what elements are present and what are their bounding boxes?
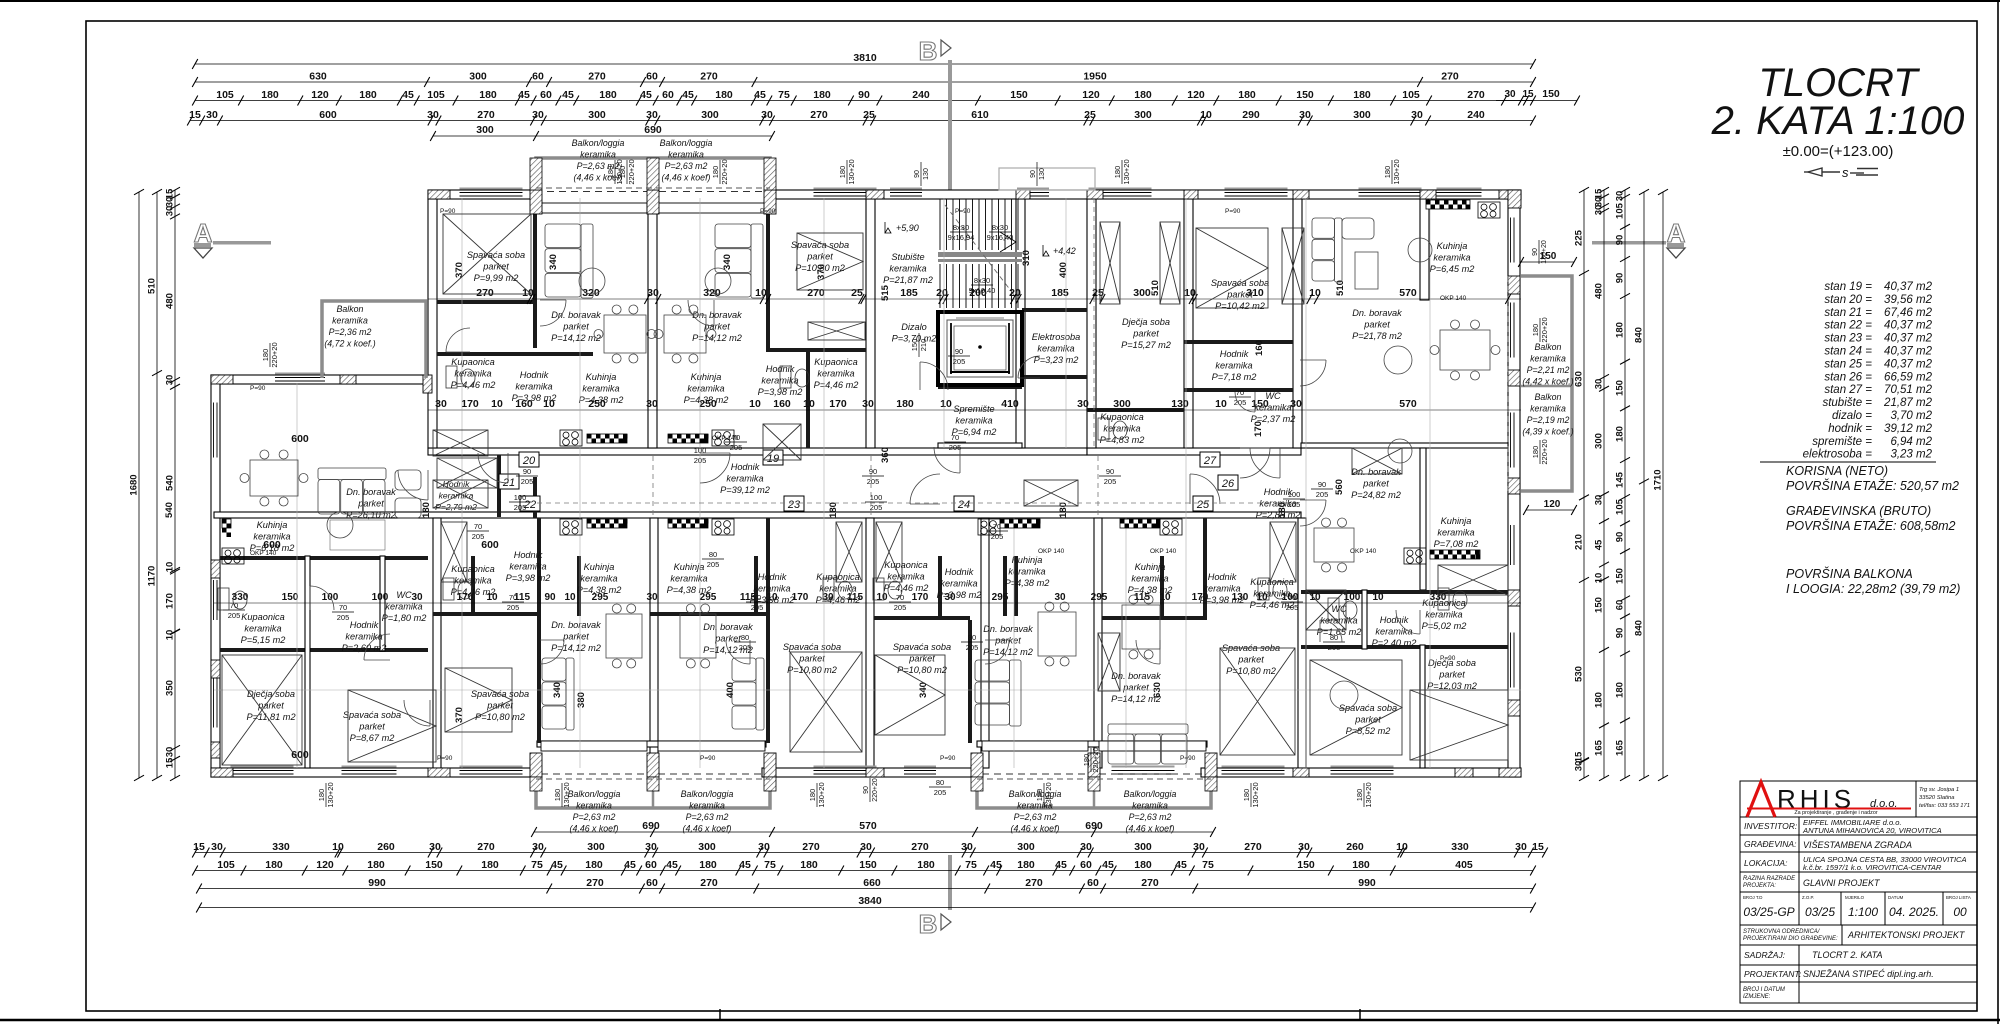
furniture sofa sofa 19 — [715, 224, 763, 298]
svg-text:220+20: 220+20 — [1540, 439, 1549, 464]
balcony bottom pair 2 — [977, 777, 1211, 808]
level mark +5,90 — [885, 222, 919, 233]
svg-text:170: 170 — [1253, 421, 1264, 437]
svg-text:POVRŠINA ETAŽE: 608,58m2: POVRŠINA ETAŽE: 608,58m2 — [1786, 518, 1956, 533]
window top t4 — [814, 188, 877, 199]
label window label right r2 — [1531, 317, 1549, 342]
room label Hodnik 20 — [512, 370, 557, 403]
label window label bl1 — [863, 778, 879, 802]
svg-text:180: 180 — [1353, 89, 1371, 101]
svg-text:stubište =: stubište = — [1822, 397, 1872, 409]
svg-text:45: 45 — [666, 859, 678, 871]
wall pier t6 — [1508, 190, 1521, 208]
room label WC 26 — [1317, 604, 1362, 637]
svg-text:3,70 m2: 3,70 m2 — [1890, 410, 1932, 422]
svg-text:Dječja soba: Dječja soba — [1122, 317, 1170, 327]
svg-text:690: 690 — [644, 124, 662, 136]
svg-text:40,37 m2: 40,37 m2 — [1884, 281, 1933, 293]
svg-text:270: 270 — [802, 841, 820, 853]
svg-text:Hodnik: Hodnik — [514, 550, 543, 560]
svg-text:10: 10 — [876, 592, 888, 603]
wall pier s1 — [211, 560, 220, 578]
svg-text:180: 180 — [828, 502, 839, 518]
svg-text:Dizalo: Dizalo — [901, 322, 927, 332]
door arc left block b — [364, 634, 390, 660]
furniture circle 27 — [1384, 346, 1412, 374]
label door label90 f6 — [1099, 467, 1121, 486]
door arc spremiste door — [934, 447, 960, 473]
svg-text:Hodnik: Hodnik — [731, 462, 760, 472]
svg-text:180: 180 — [1113, 166, 1122, 179]
wall left exterior — [211, 375, 220, 777]
svg-text:45: 45 — [624, 859, 636, 871]
svg-text:30: 30 — [647, 287, 659, 299]
svg-text:90: 90 — [544, 592, 556, 603]
svg-text:180: 180 — [421, 502, 432, 518]
svg-text:60: 60 — [540, 89, 552, 101]
wall corridor top wall — [428, 448, 1087, 455]
svg-text:Spavaća soba: Spavaća soba — [343, 710, 401, 720]
dimension chain left col inner — [165, 187, 181, 781]
window top t8 — [1225, 188, 1288, 199]
svg-text:23: 23 — [787, 499, 801, 511]
svg-text:180: 180 — [1615, 426, 1626, 442]
svg-text:10: 10 — [749, 398, 761, 410]
svg-text:P=90: P=90 — [1180, 755, 1196, 762]
wall apt19 partition — [766, 199, 770, 348]
svg-text:170: 170 — [912, 592, 929, 603]
room label Hodnik 21c — [435, 479, 477, 512]
svg-text:180: 180 — [265, 859, 283, 871]
svg-text:P=39,12 m2: P=39,12 m2 — [720, 485, 770, 495]
svg-text:45: 45 — [562, 89, 574, 101]
svg-text:60: 60 — [532, 71, 544, 83]
svg-text:Dn. boravak: Dn. boravak — [703, 622, 753, 632]
svg-text:Dn. boravak: Dn. boravak — [551, 620, 601, 630]
svg-text:30: 30 — [646, 109, 658, 121]
svg-text:60: 60 — [646, 71, 658, 83]
svg-text:parket: parket — [703, 322, 730, 332]
furniture bed/wardrobe ward 26c — [1306, 590, 1346, 630]
furniture armchair 21b — [395, 498, 421, 518]
svg-text:1:100: 1:100 — [1848, 905, 1878, 919]
svg-text:P=3,98 m2: P=3,98 m2 — [937, 590, 982, 600]
wall pier p4 — [647, 190, 659, 214]
room label Spavaca soba 27 — [1211, 278, 1269, 311]
svg-text:keramika: keramika — [1131, 574, 1168, 584]
svg-text:+5,90: +5,90 — [896, 223, 919, 233]
svg-text:OKP 140: OKP 140 — [1150, 548, 1177, 555]
wall kitchen24 wall — [1003, 556, 1007, 616]
balcony bottom dash 2 — [977, 778, 1211, 780]
title block table — [1740, 781, 1977, 1003]
svg-text:80: 80 — [1330, 633, 1338, 642]
svg-text:205: 205 — [337, 613, 350, 622]
svg-text:25: 25 — [1084, 109, 1096, 121]
section marker B bottom — [919, 855, 952, 939]
room label Dn boravak 23 — [703, 622, 753, 655]
svg-text:10: 10 — [1594, 573, 1605, 584]
svg-text:TLOCRT 2. KATA: TLOCRT 2. KATA — [1812, 950, 1883, 960]
svg-text:310: 310 — [1021, 250, 1032, 266]
svg-text:205: 205 — [1104, 477, 1117, 486]
window right r5 — [1509, 633, 1516, 688]
dimension chain top overall 3810 — [192, 52, 1536, 69]
svg-text:10: 10 — [1309, 592, 1321, 603]
svg-text:990: 990 — [1358, 877, 1376, 889]
svg-text:30: 30 — [1515, 841, 1527, 853]
wall pier p3 — [530, 190, 542, 214]
svg-text:30: 30 — [1290, 398, 1302, 410]
bathroom fixtures b27b — [1438, 588, 1467, 610]
svg-text:30: 30 — [1054, 592, 1066, 603]
svg-text:150: 150 — [859, 859, 877, 871]
svg-text:180: 180 — [1531, 446, 1540, 459]
title block texts — [1743, 818, 1971, 1000]
svg-text:P=90: P=90 — [940, 755, 956, 762]
svg-text:keramika: keramika — [509, 562, 546, 572]
room label Kupaonica 20 — [451, 357, 496, 390]
balcony bottom pair 1 — [536, 777, 770, 808]
svg-text:P=2,40 m2: P=2,40 m2 — [1372, 638, 1417, 648]
svg-text:75: 75 — [965, 859, 977, 871]
label window label left l2 — [618, 159, 636, 184]
furniture table table 22 — [606, 604, 642, 668]
room label Balkon right 2 — [1522, 392, 1573, 437]
furniture sofa sofa 21 — [318, 468, 386, 514]
furniture bed bed 27a — [1196, 228, 1268, 308]
svg-text:keramika: keramika — [244, 624, 281, 634]
svg-text:Kuhinja: Kuhinja — [1135, 562, 1166, 572]
svg-text:120: 120 — [1082, 89, 1100, 101]
dimension chain right col 1 — [1574, 187, 1590, 781]
svg-text:120: 120 — [1187, 89, 1205, 101]
room label Kuhinja 27 — [1430, 241, 1475, 274]
balcony top dash — [536, 187, 770, 189]
bathroom fixtures b22 — [443, 578, 472, 600]
svg-text:stan 22 =: stan 22 = — [1824, 320, 1872, 332]
svg-text:parket: parket — [798, 654, 825, 664]
svg-text:POVRŠINA ETAŽE: 520,57 m2: POVRŠINA ETAŽE: 520,57 m2 — [1786, 478, 1959, 493]
room label Balkon/loggia top 2 — [660, 138, 713, 183]
svg-text:40,37 m2: 40,37 m2 — [1884, 333, 1933, 345]
room label Hodnik 26 — [1256, 487, 1301, 520]
door arc bath26 — [1320, 620, 1342, 642]
wall pier q10 — [1455, 768, 1473, 777]
svg-text:350: 350 — [165, 680, 176, 696]
svg-text:180: 180 — [481, 859, 499, 871]
wall apt27 wc wall — [1184, 388, 1293, 392]
room label Hodnik 26b — [1372, 615, 1417, 648]
svg-text:8x30: 8x30 — [953, 223, 969, 232]
wall corridor bottom wall — [214, 512, 1301, 518]
svg-text:30: 30 — [1080, 841, 1092, 853]
svg-text:parket: parket — [1363, 320, 1390, 330]
label window label t5 — [914, 162, 930, 186]
window bottom b7 — [904, 766, 936, 777]
room label Hodnik 27 — [1212, 349, 1257, 382]
svg-text:180: 180 — [1594, 692, 1605, 708]
svg-text:RAZINA RAZRADE: RAZINA RAZRADE — [1743, 876, 1796, 882]
dimension chain right col 3 — [1615, 187, 1631, 781]
svg-text:300: 300 — [1594, 433, 1605, 449]
svg-text:Spavaća soba: Spavaća soba — [791, 240, 849, 250]
window bottom b9 — [1112, 766, 1175, 777]
svg-text:150: 150 — [1540, 251, 1557, 262]
furniture bed bed 26b — [1410, 690, 1508, 760]
svg-text:270: 270 — [477, 109, 495, 121]
svg-text:GLAVNI PROJEKT: GLAVNI PROJEKT — [1803, 878, 1881, 888]
svg-text:270: 270 — [477, 841, 495, 853]
furniture bed/wardrobe closet 25 — [1270, 522, 1296, 582]
wall pier q4d — [1205, 753, 1217, 777]
axis witness lines vertical — [297, 198, 1430, 768]
svg-text:130+20: 130+20 — [847, 159, 856, 184]
svg-text:keramika: keramika — [454, 369, 491, 379]
svg-text:P=8,67 m2: P=8,67 m2 — [350, 733, 395, 743]
window top t1 — [460, 188, 523, 199]
svg-text:130+20: 130+20 — [1392, 159, 1401, 184]
kitchen stove s24 — [978, 519, 1000, 535]
svg-text:480: 480 — [165, 293, 176, 309]
wall apt27 hall wall — [1184, 340, 1293, 344]
svg-text:30: 30 — [165, 375, 176, 386]
room label Spavaca soba 22 — [471, 689, 529, 722]
svg-text:3810: 3810 — [853, 52, 877, 64]
label door label80 g4 — [702, 550, 724, 569]
furniture table table 26 — [1314, 518, 1354, 572]
svg-text:600: 600 — [291, 433, 309, 445]
svg-text:180: 180 — [553, 789, 562, 802]
svg-text:keramika: keramika — [515, 382, 552, 392]
svg-text:295: 295 — [592, 592, 609, 603]
svg-text:150: 150 — [1615, 568, 1626, 584]
label stair 8x30 c — [969, 276, 996, 295]
svg-text:MJERILO: MJERILO — [1845, 895, 1865, 900]
svg-text:10: 10 — [1200, 109, 1212, 121]
svg-text:180: 180 — [599, 89, 617, 101]
svg-text:keramika: keramika — [889, 264, 926, 274]
wall apt19 hall vert — [806, 352, 810, 448]
svg-text:205: 205 — [894, 603, 907, 612]
svg-text:45: 45 — [1175, 859, 1187, 871]
svg-text:Dn. boravak: Dn. boravak — [983, 624, 1033, 634]
svg-text:160: 160 — [515, 398, 533, 410]
svg-text:105: 105 — [1615, 202, 1626, 219]
svg-text:180: 180 — [1355, 789, 1364, 802]
svg-text:90: 90 — [1532, 248, 1539, 256]
dimension chain right col 5 — [1653, 189, 1669, 781]
svg-text:90: 90 — [1615, 628, 1626, 639]
wall elektro walls — [1022, 308, 1087, 312]
svg-text:310: 310 — [1246, 287, 1264, 299]
interior dim row mid — [428, 398, 1521, 410]
svg-text:205: 205 — [867, 477, 880, 486]
svg-text:30: 30 — [1299, 109, 1311, 121]
svg-text:205: 205 — [953, 357, 966, 366]
svg-text:105: 105 — [216, 89, 234, 101]
svg-text:70: 70 — [753, 593, 761, 602]
furniture bed/wardrobe closet 23 — [836, 522, 862, 582]
svg-text:keramika: keramika — [668, 150, 704, 160]
elevator dizalo — [938, 312, 1022, 385]
svg-text:keramika: keramika — [1530, 404, 1566, 414]
svg-text:stan 25 =: stan 25 = — [1824, 358, 1872, 370]
svg-text:P=11,81 m2: P=11,81 m2 — [246, 712, 295, 722]
svg-text:130+20: 130+20 — [326, 782, 335, 807]
svg-text:400: 400 — [1058, 262, 1069, 278]
svg-text:180: 180 — [896, 398, 914, 410]
door arc hall26 — [1300, 500, 1326, 526]
room label Djecja soba 27 — [1121, 317, 1171, 350]
svg-text:keramika: keramika — [1037, 344, 1074, 354]
room label Hodnik 21 — [342, 620, 387, 653]
wall mid vert c — [754, 556, 758, 616]
label window label top w2 — [838, 159, 856, 184]
svg-text:GRAĐEVINA:: GRAĐEVINA: — [1744, 839, 1797, 849]
svg-text:Dn. boravak: Dn. boravak — [1111, 671, 1161, 681]
wall divider 22/23 — [650, 518, 658, 768]
svg-text:295: 295 — [1091, 592, 1108, 603]
svg-text:405: 405 — [1455, 859, 1473, 871]
room label Spavaca soba 25 — [1222, 643, 1280, 676]
door arc elektro door — [1018, 356, 1040, 378]
wall pier p5 — [764, 190, 776, 214]
svg-text:530: 530 — [1574, 666, 1585, 682]
door arc room26 — [1396, 610, 1420, 634]
wall apt top partition b — [533, 199, 537, 348]
dimension chain bottom rowA — [531, 820, 775, 837]
furniture table table 24 — [1038, 602, 1076, 666]
svg-text:P=2,60 m2: P=2,60 m2 — [342, 643, 387, 653]
svg-text:30: 30 — [1504, 89, 1516, 100]
room label Djecja soba 26 — [1427, 658, 1477, 691]
left block dims — [263, 433, 499, 761]
svg-text:145: 145 — [1615, 471, 1626, 488]
kitchen counter k22 — [587, 519, 628, 528]
svg-text:205: 205 — [1316, 490, 1329, 499]
svg-text:60: 60 — [1615, 600, 1626, 611]
window bottom b10 — [1222, 766, 1285, 777]
furniture bed/wardrobe ward 25 — [1098, 633, 1120, 691]
svg-text:P=5,15 m2: P=5,15 m2 — [241, 635, 286, 645]
svg-text:90: 90 — [523, 467, 531, 476]
svg-text:GRAĐEVINSKA (BRUTO): GRAĐEVINSKA (BRUTO) — [1786, 504, 1931, 518]
svg-text:P=2,63 m2: P=2,63 m2 — [665, 161, 708, 171]
wall pier p10 — [1293, 190, 1309, 199]
wall bedroom22 divider — [537, 518, 541, 743]
wall apt21 hall wall a — [497, 455, 501, 517]
label door label100 h4 — [689, 446, 711, 465]
wall bottom exterior right — [1201, 768, 1521, 777]
svg-text:P=4,38 m2: P=4,38 m2 — [1005, 578, 1050, 588]
label window label top w4 — [1383, 159, 1401, 184]
room label Balkon/loggia bottom 1 — [568, 789, 621, 834]
room label Dn boravak 21 — [346, 487, 396, 520]
svg-text:PROJEKTA:: PROJEKTA: — [1743, 883, 1776, 889]
wall pier q11 — [1499, 768, 1521, 777]
svg-text:180: 180 — [1035, 789, 1044, 802]
door arc apt19 entry — [700, 453, 730, 483]
svg-text:15: 15 — [1574, 751, 1585, 762]
svg-text:stan 20 =: stan 20 = — [1824, 294, 1872, 306]
label window label left l1 — [261, 342, 279, 367]
svg-text:3,23 m2: 3,23 m2 — [1890, 449, 1932, 461]
svg-text:Kuhinja: Kuhinja — [1437, 241, 1468, 251]
balcony top posts — [530, 158, 776, 190]
svg-text:Balkon/loggia: Balkon/loggia — [1124, 789, 1177, 799]
svg-text:P=8,52 m2: P=8,52 m2 — [1346, 726, 1391, 736]
svg-text:Spavaća soba: Spavaća soba — [783, 642, 841, 652]
apartment badge 25 — [1193, 496, 1213, 511]
svg-text:270: 270 — [586, 877, 604, 889]
svg-text:90: 90 — [1030, 170, 1037, 178]
svg-text:130+20: 130+20 — [1122, 159, 1131, 184]
svg-text:(4,72 x koef.): (4,72 x koef.) — [324, 339, 375, 349]
svg-text:180: 180 — [1277, 502, 1288, 518]
furniture table table 25 — [1122, 595, 1160, 659]
svg-text:stan 26 =: stan 26 = — [1824, 371, 1872, 383]
svg-text:parket: parket — [1132, 329, 1159, 339]
label door label d5 — [502, 593, 524, 612]
svg-text:ARHITEKTONSKI PROJEKT: ARHITEKTONSKI PROJEKT — [1847, 930, 1966, 940]
svg-text:180: 180 — [261, 349, 270, 362]
svg-text:240: 240 — [912, 89, 930, 101]
svg-text:keramika: keramika — [1425, 610, 1462, 620]
svg-text:30: 30 — [532, 841, 544, 853]
furniture bed/wardrobe closet 24 — [876, 522, 902, 582]
balcony right dashes — [1507, 276, 1509, 491]
room label Kupaonica 26 — [1422, 598, 1467, 631]
svg-text:Kupaonica: Kupaonica — [241, 612, 284, 622]
wall loggia back wall 22/23 — [537, 741, 766, 747]
label window label bottom wb2 — [553, 782, 571, 807]
svg-text:270: 270 — [810, 109, 828, 121]
svg-text:840: 840 — [1634, 327, 1645, 343]
wall apt26 bath wall — [1301, 590, 1508, 594]
label stair 8x30 a — [948, 223, 975, 242]
wall left block wc vert — [380, 556, 385, 651]
svg-text:P=3,23 m2: P=3,23 m2 — [1034, 355, 1079, 365]
svg-text:180: 180 — [1058, 502, 1069, 518]
section marker B top — [919, 36, 952, 190]
svg-text:15: 15 — [189, 109, 201, 121]
svg-text:40,37 m2: 40,37 m2 — [1884, 320, 1933, 332]
svg-text:70,51 m2: 70,51 m2 — [1884, 384, 1933, 396]
room label Hodnik main — [720, 462, 770, 495]
furniture bed/wardrobe bed 20 — [443, 214, 531, 294]
svg-text:30: 30 — [211, 841, 223, 853]
balcony top pair — [536, 158, 770, 190]
room label Spavaca soba 20 — [467, 250, 525, 283]
svg-text:300: 300 — [587, 841, 605, 853]
wall pier r3 — [423, 375, 432, 393]
svg-text:15: 15 — [1522, 89, 1534, 100]
svg-text:165: 165 — [1594, 739, 1605, 756]
svg-text:keramika: keramika — [580, 574, 617, 584]
window bottom b1 — [231, 766, 294, 777]
furniture sofa sofa 27 vert — [1312, 218, 1342, 282]
svg-text:60: 60 — [662, 89, 674, 101]
door arc room27wc — [1235, 392, 1255, 412]
room label Balkon/loggia bottom 2 — [681, 789, 734, 834]
svg-text:105: 105 — [1402, 89, 1420, 101]
svg-text:1950: 1950 — [1083, 71, 1107, 83]
window bottom b2 — [342, 766, 397, 777]
svg-text:P=12,03 m2: P=12,03 m2 — [1427, 681, 1477, 691]
svg-text:keramika: keramika — [670, 574, 707, 584]
wall elektro walls2 — [1022, 375, 1087, 379]
